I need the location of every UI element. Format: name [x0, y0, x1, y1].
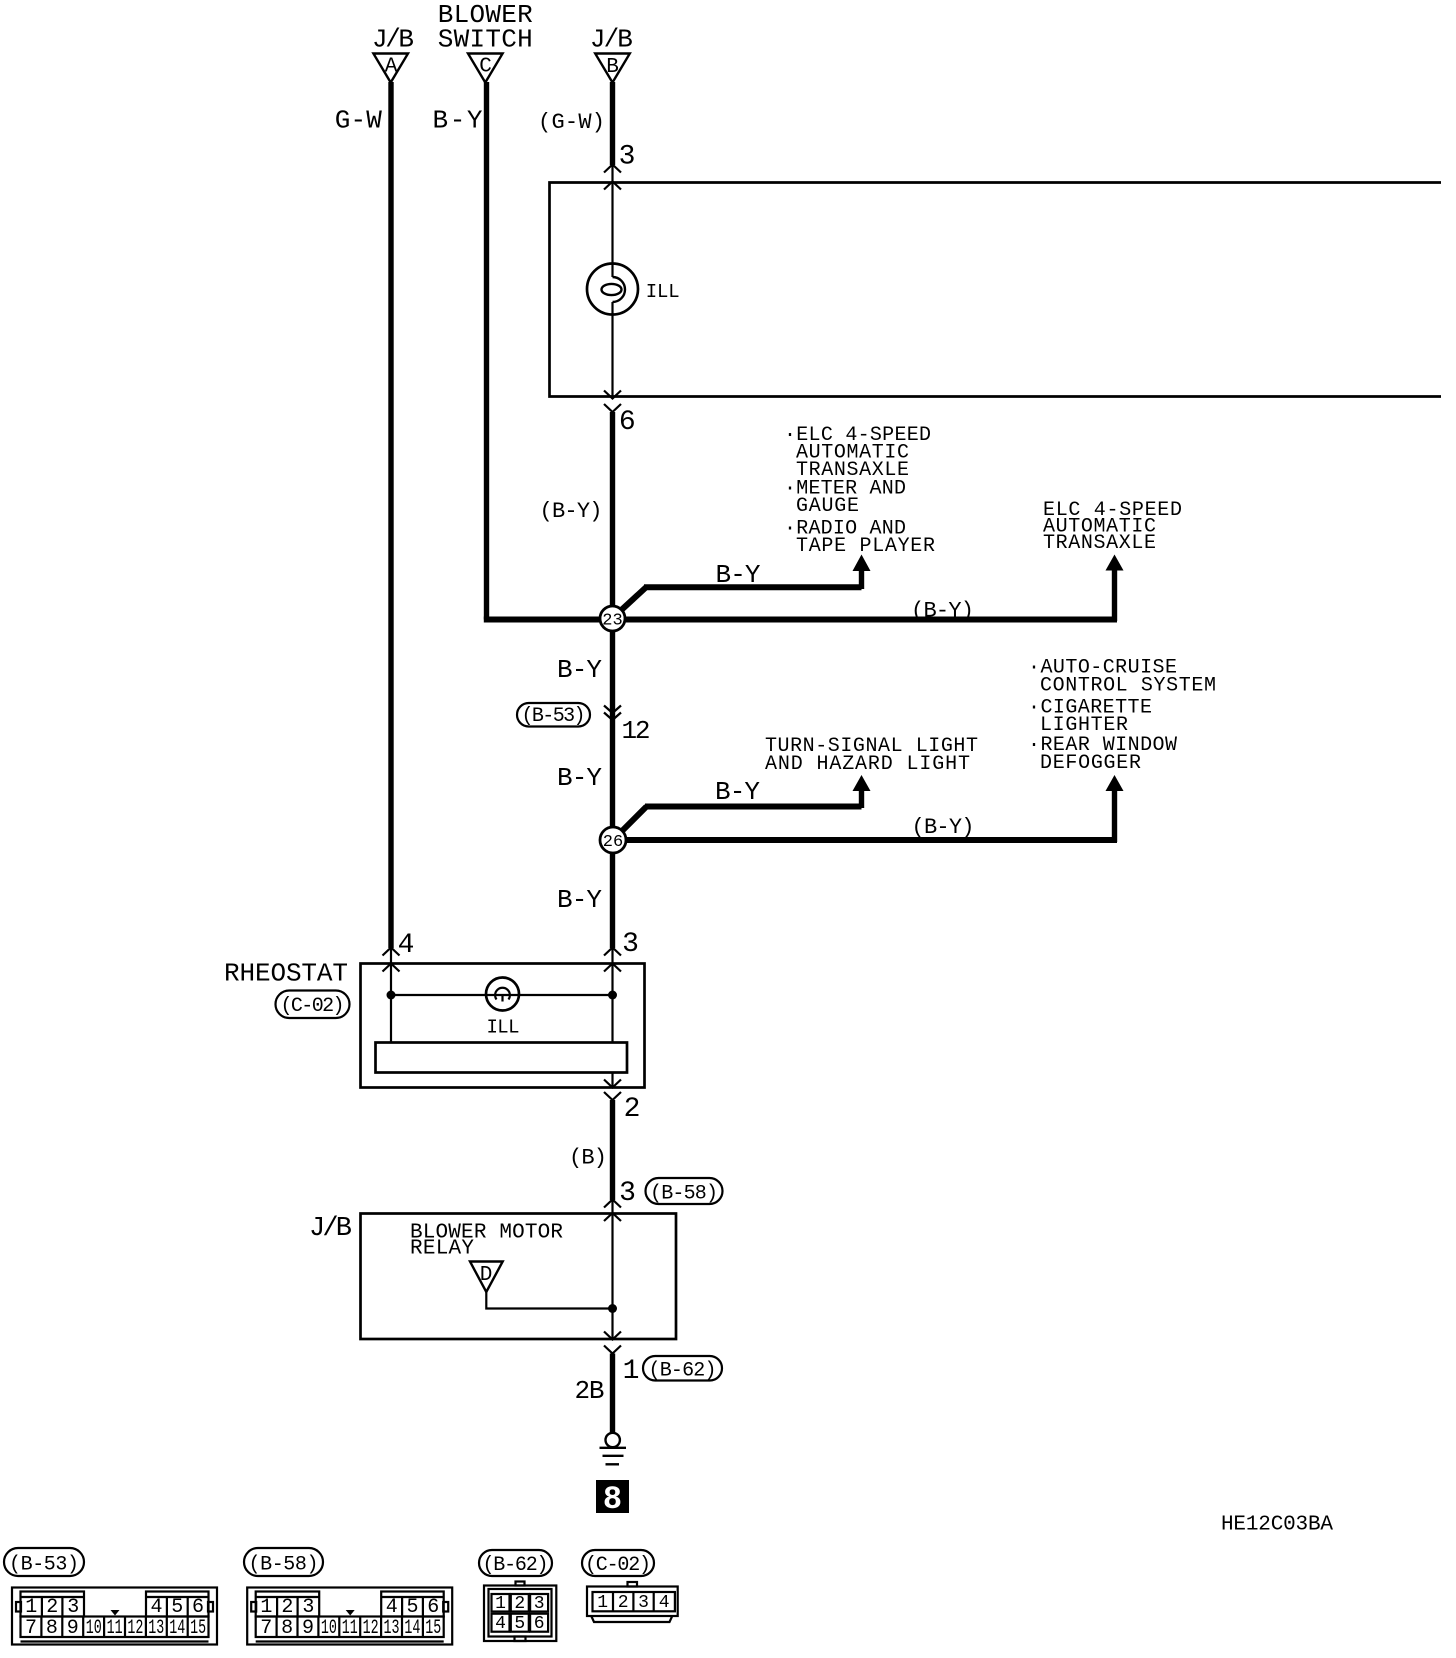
svg-text:J/B: J/B [372, 25, 414, 55]
branch wire B-Y to meter/radio (junction 23) [617, 570, 862, 614]
svg-text:4: 4 [386, 1596, 398, 1619]
wire label B-Y (below junction 23) [557, 655, 602, 685]
svg-text:13: 13 [148, 1617, 164, 1640]
svg-text:(B-62): (B-62) [483, 1554, 549, 1577]
svg-text:13: 13 [384, 1617, 400, 1640]
svg-text:B-Y: B-Y [557, 763, 602, 793]
svg-text:26: 26 [603, 833, 623, 852]
connector C-02 stadium label [276, 991, 350, 1019]
drawing code HE12C03BA [1221, 1514, 1333, 1537]
connector B-58 label (footer) [244, 1548, 323, 1577]
svg-text:12: 12 [363, 1617, 379, 1640]
svg-text:(B-58): (B-58) [249, 1554, 319, 1577]
svg-text:J/B: J/B [590, 25, 633, 55]
wire label (B-Y) right of junction 23 [911, 599, 974, 624]
svg-text:11: 11 [107, 1617, 123, 1640]
triangle connector A [373, 54, 408, 83]
wire label (G-W) [538, 110, 605, 135]
connector chevrons rheostat exit pin 2 [604, 1080, 621, 1101]
svg-text:1: 1 [25, 1596, 37, 1619]
svg-text:2: 2 [618, 1593, 629, 1613]
wire B to ground [610, 1354, 615, 1433]
rheostat box [361, 964, 645, 1088]
svg-text:(B): (B) [569, 1146, 607, 1171]
svg-text:5: 5 [514, 1614, 525, 1634]
svg-text:9: 9 [67, 1617, 79, 1640]
rheostat internal wires [391, 948, 613, 1088]
pin 3 label (rheostat) [622, 929, 639, 960]
svg-text:D: D [480, 1264, 493, 1287]
svg-text:RELAY: RELAY [410, 1238, 474, 1261]
svg-text:1: 1 [597, 1593, 608, 1613]
svg-text:1: 1 [495, 1594, 506, 1614]
svg-text:2: 2 [281, 1596, 293, 1619]
junction node 26 [600, 827, 626, 853]
pin 4 label (rheostat) [398, 930, 415, 961]
connector chevrons at illumination box entry [604, 165, 621, 190]
svg-text:A: A [385, 56, 398, 79]
svg-text:SWITCH: SWITCH [438, 25, 533, 55]
connector chevrons at illumination box exit [604, 391, 621, 413]
svg-text:C: C [479, 56, 492, 79]
svg-text:B-Y: B-Y [557, 655, 602, 685]
svg-text:1: 1 [260, 1596, 272, 1619]
svg-text:4: 4 [398, 930, 415, 961]
wire label (B-Y) [540, 499, 603, 524]
svg-text:(B-53): (B-53) [9, 1554, 79, 1577]
svg-text:15: 15 [425, 1617, 441, 1640]
svg-text:5: 5 [171, 1596, 183, 1619]
connector C-02 pinout drawing [587, 1582, 678, 1622]
svg-text:8: 8 [281, 1617, 293, 1640]
svg-text:3: 3 [638, 1593, 649, 1613]
triangle connector B [595, 54, 630, 83]
destination label: ELC 4-SPEED AUTOMATIC TRANSAXLE [1043, 499, 1182, 555]
connector chevrons rheostat pin 4 [383, 948, 400, 972]
svg-text:TRANSAXLE: TRANSAXLE [1043, 532, 1156, 555]
main horizontal wire at junction 26 [613, 791, 1117, 842]
svg-text:10: 10 [86, 1617, 102, 1640]
svg-text:3: 3 [619, 1178, 636, 1209]
svg-text:3: 3 [67, 1596, 79, 1619]
svg-text:15: 15 [190, 1617, 206, 1640]
svg-text:2: 2 [624, 1094, 641, 1125]
pin 3 label (illumination box entry) [619, 142, 636, 173]
wire B thin inside lamp box [611, 165, 613, 399]
wire B vertical top [610, 82, 615, 165]
svg-text:2B: 2B [575, 1376, 605, 1406]
main horizontal wire at junction 23 [484, 570, 1117, 621]
svg-text:3: 3 [302, 1596, 314, 1619]
connector B-62 stadium label [643, 1356, 722, 1383]
wire A vertical [388, 82, 393, 948]
connector chevrons rheostat pin 3 [604, 948, 621, 972]
wire label (B) [569, 1146, 607, 1171]
svg-text:10: 10 [321, 1617, 337, 1640]
connector B-62 pinout drawing [484, 1582, 556, 1642]
label J/B (relay box) [309, 1214, 352, 1244]
branch wire B-Y to turn-signal (junction 26) [618, 791, 862, 835]
label ILL [646, 281, 680, 303]
lamp ILL symbol [587, 264, 638, 315]
label J/B (connector A) [372, 25, 414, 55]
connector C-02 label (footer) [582, 1550, 654, 1577]
pin 2 label [624, 1094, 641, 1125]
svg-text:ILL: ILL [487, 1017, 520, 1039]
svg-text:(B-Y): (B-Y) [912, 815, 975, 840]
illumination lamp unit box (open right) [550, 183, 1442, 397]
wire label (B-Y) right of junction 26 [912, 815, 975, 840]
svg-text:DEFOGGER: DEFOGGER [1040, 752, 1141, 775]
triangle connector D [470, 1262, 503, 1293]
svg-text:GAUGE: GAUGE [796, 495, 859, 518]
svg-text:2: 2 [46, 1596, 58, 1619]
svg-text:8: 8 [46, 1617, 58, 1640]
svg-text:B-Y: B-Y [716, 560, 761, 590]
arrow to auto-cruise etc [1106, 775, 1124, 791]
svg-text:B-Y: B-Y [557, 885, 602, 915]
wire label 2B [575, 1376, 605, 1406]
junction dot relay [608, 1304, 617, 1313]
label BLOWER SWITCH (connector C) [438, 0, 533, 55]
connector B-58 stadium label [646, 1178, 723, 1206]
svg-text:(G-W): (G-W) [538, 110, 605, 135]
connector B-62 label (footer) [479, 1550, 552, 1577]
destination label: TURN-SIGNAL LIGHT AND HAZARD LIGHT [765, 735, 978, 776]
destination list: AUTO-CRUISE/CIGARETTE/REAR WINDOW [1028, 657, 1216, 776]
svg-text:(B-53): (B-53) [522, 705, 586, 728]
wire B rheostat to relay [610, 1100, 615, 1200]
ground reference number 8 [596, 1480, 629, 1518]
relay internal wires [486, 1200, 612, 1339]
svg-text:CONTROL SYSTEM: CONTROL SYSTEM [1040, 675, 1216, 698]
svg-text:3: 3 [622, 929, 639, 960]
rheostat resistor element box [376, 1043, 628, 1073]
svg-text:7: 7 [260, 1617, 272, 1640]
junction dot rheostat left [387, 991, 396, 1000]
svg-text:B-Y: B-Y [433, 106, 483, 136]
svg-text:TAPE PLAYER: TAPE PLAYER [796, 535, 935, 558]
svg-text:6: 6 [619, 407, 636, 438]
svg-text:G-W: G-W [335, 106, 382, 136]
pin 1 label [623, 1356, 640, 1387]
svg-text:(C-02): (C-02) [281, 995, 345, 1018]
triangle connector C [468, 54, 503, 83]
svg-text:14: 14 [404, 1617, 420, 1640]
svg-text:(C-02): (C-02) [585, 1554, 651, 1577]
svg-text:B: B [606, 56, 619, 79]
svg-text:(B-Y): (B-Y) [911, 599, 974, 624]
svg-text:1: 1 [623, 1356, 640, 1387]
destination list: ELC/METER/RADIO [784, 424, 935, 558]
junction block / relay box [361, 1214, 677, 1340]
svg-text:4: 4 [659, 1593, 670, 1613]
svg-text:ILL: ILL [646, 281, 680, 303]
arrow to turn-signal light [853, 775, 871, 791]
svg-text:8: 8 [603, 1481, 622, 1518]
connector B-58 pinout drawing [247, 1588, 452, 1645]
wire label G-W [335, 106, 382, 136]
svg-text:12: 12 [127, 1617, 143, 1640]
svg-text:(B-Y): (B-Y) [540, 499, 603, 524]
svg-text:(B-62): (B-62) [649, 1360, 717, 1383]
pin 12 label [622, 716, 651, 746]
label J/B (connector B) [590, 25, 633, 55]
connector B-53 pinout drawing [12, 1588, 217, 1645]
arrow to ELC transaxle [1106, 555, 1124, 571]
wire C vertical [484, 82, 489, 620]
svg-text:B-Y: B-Y [715, 777, 760, 807]
svg-text:12: 12 [622, 716, 651, 746]
ground symbol [600, 1433, 627, 1465]
arrow to meter/radio [853, 555, 871, 572]
svg-text:3: 3 [534, 1594, 545, 1614]
wire label B-Y (above junction 26) [557, 763, 602, 793]
svg-text:4: 4 [150, 1596, 162, 1619]
label ILL (rheostat) [487, 1017, 520, 1039]
svg-text:14: 14 [169, 1617, 185, 1640]
pin 3 label (B-58) [619, 1178, 636, 1209]
connector chevrons relay box exit [604, 1332, 621, 1354]
wire label B-Y (branch 23) [716, 560, 761, 590]
svg-text:HE12C03BA: HE12C03BA [1221, 1514, 1333, 1537]
svg-text:RHEOSTAT: RHEOSTAT [224, 959, 348, 989]
svg-text:J/B: J/B [309, 1214, 352, 1244]
svg-text:4: 4 [495, 1614, 506, 1634]
label RHEOSTAT [224, 959, 348, 989]
svg-text:7: 7 [25, 1617, 37, 1640]
pin 6 label [619, 407, 636, 438]
connector chevrons relay box entry [604, 1200, 621, 1222]
svg-text:9: 9 [302, 1617, 314, 1640]
svg-text:(B-58): (B-58) [650, 1183, 718, 1206]
connector B-53 crossing chevrons [604, 706, 621, 721]
wire B vertical (lamp box to rheostat) [610, 412, 615, 948]
svg-text:3: 3 [619, 142, 636, 173]
svg-text:23: 23 [602, 612, 622, 631]
wire label B-Y [433, 106, 483, 136]
connector B-53 stadium label [517, 703, 590, 728]
svg-text:2: 2 [514, 1594, 525, 1614]
svg-text:6: 6 [192, 1596, 204, 1619]
label BLOWER MOTOR RELAY [410, 1222, 563, 1261]
svg-text:6: 6 [534, 1614, 545, 1634]
wire label B-Y (above rheostat) [557, 885, 602, 915]
wire label B-Y (branch 26) [715, 777, 760, 807]
svg-text:AND HAZARD LIGHT: AND HAZARD LIGHT [765, 753, 970, 776]
svg-text:6: 6 [427, 1596, 439, 1619]
svg-text:11: 11 [342, 1617, 358, 1640]
connector B-53 label (footer) [4, 1548, 84, 1577]
rheostat lamp symbol [486, 978, 519, 1011]
junction node 23 [600, 606, 625, 631]
junction dot rheostat right [608, 991, 617, 1000]
svg-text:5: 5 [406, 1596, 418, 1619]
